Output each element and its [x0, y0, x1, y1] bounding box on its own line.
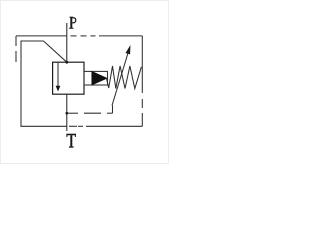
enclosure dashed box bottom edge [69, 125, 142, 127]
node B junction (T line / drain) [65, 112, 68, 115]
wire: port T line [66, 94, 68, 131]
label T [66, 134, 76, 148]
enclosure dashed box right edge [141, 36, 143, 126]
enclosure dashed box left edge [15, 36, 17, 62]
wire: pilot/bypass line from node A to tank line (left side) [21, 41, 67, 126]
adjustment arrow through spring [112, 47, 130, 106]
pilot pressure triangle (filled) [92, 72, 107, 85]
pilot pressure connector box on valve V1 [84, 71, 108, 85]
wire: port P line [66, 23, 68, 62]
enclosure dashed box top edge [16, 35, 142, 37]
wire: dashed drain line to tank line [67, 106, 113, 114]
node A junction (P line / valve inlet) [65, 61, 68, 64]
relief valve body V1 [53, 62, 84, 94]
label P [69, 17, 76, 29]
flow-path arrow inside valve V1 [56, 62, 61, 91]
spring (adjustable) [107, 66, 142, 89]
